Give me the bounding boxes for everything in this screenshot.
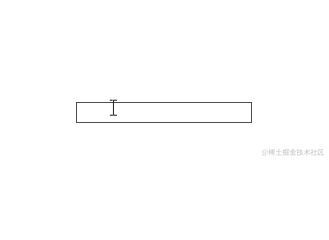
text input box — [76, 102, 253, 123]
watermark "@稀土掘金技术社区" as vector rects — [262, 149, 324, 156]
I-beam text cursor — [108, 98, 120, 118]
